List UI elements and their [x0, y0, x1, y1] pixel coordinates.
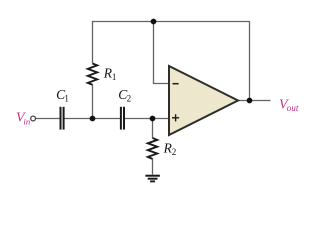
svg-text:out: out — [287, 104, 299, 114]
svg-text:2: 2 — [172, 147, 177, 157]
svg-text:1: 1 — [112, 72, 117, 82]
svg-text:2: 2 — [127, 94, 132, 104]
svg-text:1: 1 — [64, 94, 69, 104]
svg-text:in: in — [23, 116, 30, 126]
